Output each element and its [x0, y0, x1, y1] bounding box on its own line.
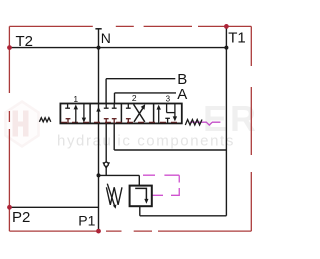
svg-text:T1: T1: [228, 30, 246, 47]
wire junction horizontal to compensator: [99, 174, 140, 176]
wire valve A port down: [113, 123, 115, 150]
wire port B riser: [105, 79, 107, 104]
wire port B horizontal: [106, 78, 175, 80]
magenta pilot dashed line: [143, 175, 180, 195]
port dot P2: [7, 205, 12, 210]
dashed red drawing border: [9, 26, 251, 231]
wire A return horizontal to tank: [114, 149, 226, 151]
svg-text:N: N: [101, 30, 111, 46]
valve neutral position symbols: [96, 107, 100, 112]
junction dot at T1 riser: [224, 46, 228, 50]
valve position 1 symbols: [65, 104, 84, 124]
svg-text:P1: P1: [78, 213, 95, 229]
spring right: [185, 120, 202, 126]
svg-text:A: A: [177, 86, 187, 103]
directional valve DV1 body: [60, 104, 181, 124]
port dot P1: [96, 229, 101, 234]
wire check valve outlet: [105, 168, 107, 176]
compensator internal arrow: [135, 188, 146, 201]
svg-text:P2: P2: [12, 209, 30, 226]
port dot T1: [224, 24, 229, 29]
wire stub below compensator box: [139, 206, 141, 216]
port dot T2: [7, 45, 12, 50]
spring left: [39, 118, 50, 122]
compensator valve box: [130, 186, 152, 207]
wire tank return bottom horizontal: [140, 215, 227, 217]
valve bottom maroon dashes: [61, 121, 181, 123]
valve position 2 symbols: [126, 104, 145, 122]
check valve V1 ball: [104, 162, 108, 166]
wire stub above compensator box: [138, 175, 140, 185]
magenta detent squiggle: [190, 122, 220, 125]
junction dot at N: [97, 46, 101, 50]
wire valve B port down to check valve: [105, 123, 107, 161]
svg-text:2: 2: [132, 93, 137, 103]
wire tank return right vertical: [225, 26, 227, 215]
svg-text:T2: T2: [16, 33, 34, 50]
port N cap bar: [95, 28, 101, 30]
wire port A riser: [114, 93, 116, 104]
wire P2 horizontal: [10, 206, 99, 208]
adjustable throttle spring W: [106, 187, 122, 205]
wire tank line T2-T1 top horizontal: [10, 47, 227, 49]
wire port A horizontal: [115, 92, 177, 94]
wire main vertical N-P1: [98, 29, 100, 231]
watermark hexagon logo: [6, 102, 39, 147]
svg-text:1: 1: [73, 94, 78, 104]
valve position 3 (float) symbols: [159, 104, 175, 124]
valve position 1 bottom blocked port: [66, 119, 71, 124]
watermark H glyph: [13, 111, 29, 137]
check valve V1 seat: [103, 162, 109, 168]
svg-text:3: 3: [166, 94, 171, 103]
svg-text:hydraulic components: hydraulic components: [57, 133, 235, 150]
junction dot at check valve branch: [97, 173, 101, 177]
adjustable throttle arrow: [107, 184, 115, 207]
